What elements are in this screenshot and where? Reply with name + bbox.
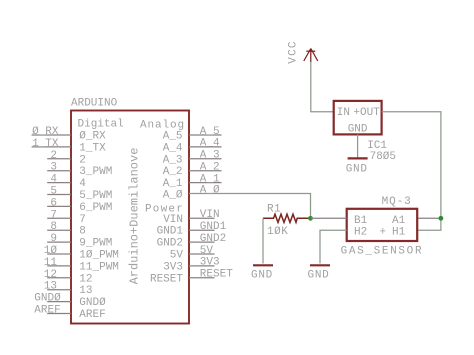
pin A_2 : wire + net label + pin name [163, 162, 222, 179]
svg-text:B1: B1 [354, 215, 368, 227]
pin VIN : wire + net label + pin name [163, 209, 219, 226]
pin 7 : wire + net label + pin name [47, 209, 86, 226]
pin AREF : wire + net label + pin name [34, 305, 105, 322]
svg-text:1_TX: 1_TX [79, 142, 106, 154]
svg-text:A_5: A_5 [200, 126, 220, 138]
svg-text:VIN: VIN [200, 209, 220, 221]
pin 10_PWM : wire + net label + pin name [44, 245, 119, 262]
svg-text:2: 2 [50, 150, 57, 162]
pin GND0 : wire + net label + pin name [34, 293, 106, 310]
ground symbol under R1 [253, 264, 273, 266]
pin 8 : wire + net label + pin name [47, 221, 86, 238]
svg-text:H1: H1 [392, 227, 406, 239]
svg-text:4: 4 [50, 174, 57, 186]
svg-text:1ØK: 1ØK [267, 226, 288, 238]
ground symbol under IC1 [348, 157, 368, 159]
ground symbol under H2 [310, 264, 330, 266]
pin 2 : wire + net label + pin name [47, 150, 86, 167]
resistor R1 zigzag [263, 214, 311, 222]
pin 4 : wire + net label + pin name [47, 174, 86, 191]
svg-text:VIN: VIN [163, 214, 183, 226]
svg-text:+: + [380, 227, 387, 239]
svg-text:GNDØ: GNDØ [79, 297, 106, 309]
svg-text:12: 12 [44, 269, 57, 281]
pin A_5 : wire + net label + pin name [163, 126, 222, 143]
svg-text:IN: IN [337, 107, 350, 119]
wire OUT to MQ-3 A1/H1 [382, 112, 441, 230]
svg-text:6_PWM: 6_PWM [79, 202, 112, 214]
svg-text:8: 8 [50, 221, 57, 233]
svg-text:5: 5 [50, 186, 57, 198]
junction node at A1 / OUT [439, 216, 444, 221]
svg-text:3V3: 3V3 [200, 257, 220, 269]
wire R1 left lead to ground [262, 218, 264, 263]
pin 11_PWM : wire + net label + pin name [44, 257, 119, 274]
pin A_0 + net A_0 wire to R1/B1 node [163, 184, 311, 218]
wire VCC to IC1 IN [311, 62, 334, 112]
svg-text:13: 13 [44, 281, 57, 293]
svg-text:GND1: GND1 [200, 221, 227, 233]
svg-text:H2: H2 [354, 227, 367, 239]
wire H2 to ground [320, 230, 347, 263]
svg-text:GND1: GND1 [157, 226, 184, 238]
svg-text:3_PWM: 3_PWM [79, 166, 112, 178]
pin 6_PWM : wire + net label + pin name [47, 197, 112, 214]
svg-text:1Ø_PWM: 1Ø_PWM [79, 250, 119, 262]
pin 3_PWM : wire + net label + pin name [47, 162, 112, 179]
svg-text:A_3: A_3 [200, 150, 220, 162]
svg-text:A_2: A_2 [200, 162, 220, 174]
svg-text:6: 6 [50, 197, 57, 209]
svg-text:R1: R1 [267, 203, 281, 215]
pin 13 : wire + net label + pin name [44, 281, 93, 298]
wire node to B1 pin [311, 217, 347, 219]
svg-text:A_5: A_5 [163, 131, 183, 143]
pin 5V : wire + net label + pin name [170, 245, 215, 262]
svg-text:13: 13 [79, 285, 92, 297]
svg-text:A_Ø: A_Ø [163, 190, 183, 202]
junction node A_0 / R1 / B1 [308, 216, 313, 221]
svg-text:VCC: VCC [288, 40, 300, 63]
svg-text:GND: GND [251, 270, 273, 282]
svg-text:1Ø: 1Ø [44, 245, 58, 257]
pin 9_PWM : wire + net label + pin name [47, 233, 112, 250]
svg-text:3: 3 [50, 162, 57, 174]
svg-text:7: 7 [79, 214, 86, 226]
pin 1_TX : wire + net label + pin name [32, 138, 107, 155]
svg-text:RESET: RESET [150, 273, 183, 285]
svg-text:A_4: A_4 [200, 138, 220, 150]
svg-text:5V: 5V [200, 245, 214, 257]
svg-text:GND: GND [308, 270, 330, 282]
svg-text:MQ-3: MQ-3 [382, 196, 412, 208]
svg-text:AREF: AREF [34, 305, 60, 317]
svg-text:Ø_RX: Ø_RX [32, 126, 59, 138]
pin GND1 : wire + net label + pin name [157, 221, 227, 238]
svg-text:A_Ø: A_Ø [200, 184, 220, 196]
svg-text:ARDUINO: ARDUINO [71, 97, 118, 109]
pin RESET : wire + net label + pin name [150, 269, 233, 286]
svg-text:A_2: A_2 [163, 166, 183, 178]
gas sensor B1 box [347, 209, 418, 241]
svg-text:5_PWM: 5_PWM [79, 190, 112, 202]
svg-text:9_PWM: 9_PWM [79, 238, 112, 250]
svg-text:4: 4 [79, 178, 86, 190]
svg-text:2: 2 [79, 154, 86, 166]
pin A_1 : wire + net label + pin name [163, 173, 222, 190]
svg-text:7: 7 [50, 209, 57, 221]
pin GND2 : wire + net label + pin name [157, 233, 227, 250]
svg-text:GND: GND [346, 164, 368, 176]
svg-text:GND: GND [348, 124, 368, 136]
svg-text:8: 8 [79, 226, 86, 238]
svg-text:GNDØ: GNDØ [34, 293, 61, 305]
VCC supply symbol (arrow) [304, 49, 318, 63]
svg-text:A_4: A_4 [163, 142, 183, 154]
pin 5_PWM : wire + net label + pin name [47, 186, 112, 203]
svg-text:GND2: GND2 [157, 238, 183, 250]
svg-text:A_1: A_1 [163, 178, 183, 190]
pin 12 : wire + net label + pin name [44, 269, 93, 286]
svg-text:Digital: Digital [78, 119, 124, 131]
svg-text:+OUT: +OUT [353, 107, 380, 119]
svg-text:GAS_SENSOR: GAS_SENSOR [341, 246, 424, 258]
svg-text:AREF: AREF [79, 309, 105, 321]
pin 3V3 : wire + net label + pin name [163, 257, 219, 274]
pin 0_RX : wire + net label + pin name [32, 126, 107, 143]
svg-text:Arduino+Duemilanove: Arduino+Duemilanove [127, 148, 141, 285]
Arduino symbol box [71, 111, 189, 324]
wire A1 stub to node [417, 217, 441, 219]
svg-text:5V: 5V [170, 250, 184, 262]
svg-text:GND2: GND2 [200, 233, 226, 245]
svg-text:RESET: RESET [200, 269, 233, 281]
svg-text:A_3: A_3 [163, 154, 183, 166]
svg-text:11: 11 [44, 257, 58, 269]
regulator IC1 box [334, 101, 382, 134]
svg-text:11_PWM: 11_PWM [79, 261, 119, 273]
svg-text:3V3: 3V3 [163, 261, 183, 273]
svg-text:12: 12 [79, 273, 92, 285]
pin A_4 : wire + net label + pin name [163, 138, 222, 155]
svg-text:78Ø5: 78Ø5 [370, 151, 396, 163]
svg-text:9: 9 [50, 233, 57, 245]
svg-text:1_TX: 1_TX [32, 138, 59, 150]
svg-text:Ø_RX: Ø_RX [79, 131, 106, 143]
pin A_3 : wire + net label + pin name [163, 150, 222, 167]
wire IC1 GND pin down [357, 134, 359, 158]
svg-text:A1: A1 [392, 215, 406, 227]
